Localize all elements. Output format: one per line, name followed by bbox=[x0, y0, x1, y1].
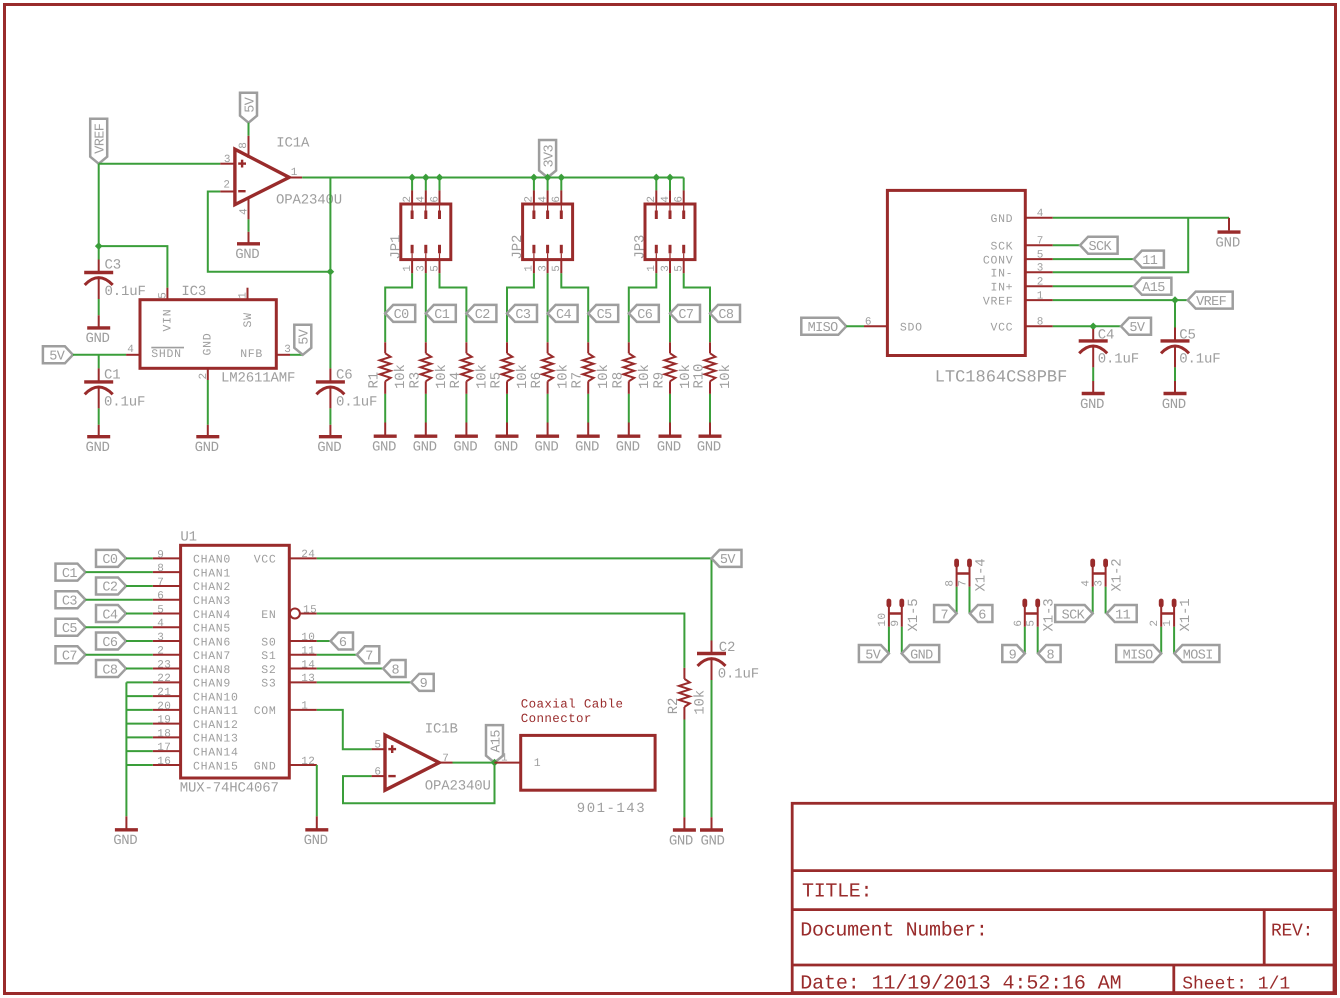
junction 3V3 bus at JP1 pin 2 bbox=[408, 174, 416, 182]
wire bus to CHAN15 bbox=[126, 764, 152, 766]
junction VREF-C5 bbox=[1171, 296, 1179, 304]
header pin X1-4 (7) pad bbox=[967, 561, 972, 565]
JP3 pin 6 stub bbox=[683, 190, 685, 219]
op-amp IC1B minus sign bbox=[388, 775, 395, 777]
svg-text:14: 14 bbox=[301, 659, 315, 671]
svg-text:5: 5 bbox=[551, 265, 563, 272]
svg-text:C6: C6 bbox=[637, 308, 653, 323]
svg-text:12: 12 bbox=[301, 756, 315, 768]
header pin X1-3 (5) pad bbox=[1035, 601, 1040, 605]
svg-text:3: 3 bbox=[537, 265, 549, 272]
svg-text:10k: 10k bbox=[692, 690, 708, 715]
pin name CHAN13 bbox=[193, 733, 239, 746]
capacitor C3 bbox=[84, 273, 113, 300]
svg-text:3: 3 bbox=[660, 265, 672, 272]
wire R5 to GND bbox=[506, 394, 508, 423]
resistor R3 bbox=[420, 342, 431, 394]
svg-text:3: 3 bbox=[1037, 263, 1044, 275]
JP3 pin 4 stub bbox=[669, 190, 671, 219]
wire GND corner down bbox=[1228, 218, 1230, 231]
svg-text:Coaxial Cable: Coaxial Cable bbox=[521, 697, 624, 711]
junction 3V3 bus at JP2 pin 6 bbox=[557, 174, 565, 182]
svg-text:S1: S1 bbox=[261, 650, 276, 663]
wire IC3 pin 3 to 5V bbox=[290, 354, 303, 356]
pin name GND (U1) bbox=[254, 760, 277, 773]
pin name CHAN14 bbox=[193, 746, 239, 759]
svg-text:C8: C8 bbox=[102, 663, 118, 678]
header X1-1 bar bbox=[1161, 612, 1174, 615]
svg-text:8: 8 bbox=[945, 579, 957, 586]
wire R6 to GND bbox=[547, 394, 549, 423]
svg-text:R6: R6 bbox=[529, 372, 545, 389]
svg-text:R8: R8 bbox=[610, 372, 626, 389]
svg-text:1: 1 bbox=[501, 753, 508, 765]
wire S3 to tag 9 bbox=[317, 681, 411, 683]
svg-text:CHAN3: CHAN3 bbox=[193, 595, 231, 608]
wire X1-3 pin 6 bbox=[1024, 627, 1026, 654]
pin number 10 (X1-5) bbox=[877, 612, 889, 626]
svg-text:IN-: IN- bbox=[990, 268, 1013, 281]
U1 pin 14 (S2) stub bbox=[289, 668, 317, 670]
svg-text:2: 2 bbox=[223, 179, 230, 191]
ground under IC1A bbox=[235, 232, 260, 263]
resistor R2 bbox=[679, 668, 690, 720]
wire bus to JP1 pin 6 bbox=[439, 178, 441, 191]
svg-text:R1: R1 bbox=[367, 372, 383, 389]
svg-text:GND: GND bbox=[1080, 397, 1104, 413]
header X1-3 bar bbox=[1025, 612, 1038, 615]
svg-text:8: 8 bbox=[157, 563, 164, 575]
jumper JP3 body bbox=[645, 204, 695, 260]
ground under R1 bbox=[372, 423, 397, 456]
pin name S1 (U1) bbox=[261, 650, 276, 663]
net label VREF (LTC1864) bbox=[1188, 292, 1233, 310]
pin name CHAN12 bbox=[193, 719, 239, 732]
pin name SDO (LTC1864) bbox=[900, 322, 923, 335]
resistor R4 bbox=[461, 342, 472, 394]
label X1-2 bbox=[1110, 558, 1126, 591]
svg-text:1: 1 bbox=[534, 757, 542, 770]
svg-text:7: 7 bbox=[940, 608, 948, 623]
value 10k (R8) bbox=[637, 364, 653, 389]
wire bus to CHAN10 bbox=[126, 695, 152, 697]
svg-text:C0: C0 bbox=[102, 553, 118, 568]
capacitor C4 bbox=[1079, 341, 1108, 368]
U1 pin 4 (CHAN5) stub bbox=[153, 626, 181, 628]
svg-text:CHAN7: CHAN7 bbox=[193, 650, 231, 663]
U1 pin 9 (CHAN0) stub bbox=[153, 557, 181, 559]
pin number 9 (U1) bbox=[157, 549, 164, 561]
wire IN+ pin bbox=[1053, 285, 1134, 287]
JP2 pin 1 stub bbox=[532, 245, 535, 273]
svg-text:C3: C3 bbox=[105, 258, 122, 274]
label X1-5 bbox=[906, 598, 922, 631]
pin name SHDN with overbar bbox=[151, 348, 184, 362]
ground top right bbox=[1215, 232, 1240, 251]
svg-text:20: 20 bbox=[157, 701, 171, 713]
pin number 5 (IC1B) bbox=[374, 740, 381, 752]
label C1 bbox=[104, 368, 121, 384]
pin number 6 (X1-3) bbox=[1013, 619, 1025, 626]
pin number 1 (JP2) bbox=[524, 265, 536, 272]
net label 11 (CONV) bbox=[1134, 251, 1164, 269]
pin name VIN bbox=[161, 309, 174, 332]
svg-text:8: 8 bbox=[1037, 317, 1044, 329]
svg-text:LM2611AMF: LM2611AMF bbox=[221, 371, 295, 387]
svg-text:C3: C3 bbox=[515, 308, 531, 323]
op-amp IC1B plus sign bbox=[388, 745, 396, 753]
wire bus to JP2 pin 4 bbox=[547, 178, 549, 191]
svg-text:REV:: REV: bbox=[1271, 922, 1313, 942]
wire EN to R2 bbox=[317, 613, 685, 667]
ground under R8 bbox=[616, 423, 641, 456]
svg-text:C7: C7 bbox=[62, 650, 78, 665]
svg-text:JP3: JP3 bbox=[633, 235, 649, 260]
pin name COM (U1) bbox=[254, 705, 277, 718]
wire S0 to tag 6 bbox=[317, 640, 331, 642]
svg-text:3: 3 bbox=[157, 632, 164, 644]
pin number 3 (JP2) bbox=[537, 265, 549, 272]
svg-text:17: 17 bbox=[157, 742, 171, 754]
pin number 6 (JP3) bbox=[674, 195, 686, 202]
header pin X1-2 (4) pad bbox=[1090, 561, 1095, 565]
svg-text:6: 6 bbox=[551, 195, 563, 202]
net label C5 bbox=[588, 305, 618, 323]
wire JP3 pin 1 to C6 bbox=[629, 273, 657, 342]
ground under R5 bbox=[494, 423, 519, 456]
pin name S2 (U1) bbox=[261, 664, 276, 677]
IC3 pin 4 stub bbox=[126, 354, 140, 356]
svg-text:CHAN1: CHAN1 bbox=[193, 567, 231, 580]
pin number 2 (U1) bbox=[157, 646, 164, 658]
pin number 23 (U1) bbox=[157, 659, 171, 671]
pin number 1 (coax) bbox=[501, 753, 508, 765]
IC3 pin 3 stub bbox=[276, 354, 290, 356]
wire C0 to CHAN0 bbox=[126, 557, 153, 559]
svg-text:3: 3 bbox=[224, 154, 231, 166]
pin name S3 (U1) bbox=[261, 678, 276, 691]
net label C2 bbox=[466, 305, 496, 323]
svg-text:4: 4 bbox=[1081, 579, 1093, 586]
value 10k (R2) bbox=[692, 690, 708, 715]
wire VREF to C5 bbox=[1174, 300, 1176, 327]
svg-text:24: 24 bbox=[301, 549, 315, 561]
capacitor C3 lead bbox=[98, 260, 100, 273]
svg-text:6: 6 bbox=[1013, 619, 1025, 626]
svg-text:9: 9 bbox=[157, 549, 164, 561]
header pin X1-4 (8) lead bbox=[956, 565, 958, 587]
svg-text:GND: GND bbox=[235, 247, 259, 263]
value LM2611AMF bbox=[221, 371, 295, 387]
coaxial connector body bbox=[521, 735, 655, 790]
pin number 6 (LTC1864) bbox=[865, 317, 872, 329]
wire 5V to pin 8 bbox=[248, 123, 250, 136]
value 10k (R5) bbox=[515, 364, 531, 389]
svg-text:4: 4 bbox=[127, 344, 134, 356]
wire X1-5 pin 9 bbox=[901, 627, 903, 654]
wire VREF vertical bbox=[98, 164, 100, 246]
value LTC1864CS8PBF bbox=[935, 368, 1068, 387]
net label GND (X1-5) bbox=[902, 645, 940, 663]
svg-text:6: 6 bbox=[157, 591, 164, 603]
header pin X1-2 (3) pad bbox=[1103, 561, 1108, 565]
net label C6 (U1) bbox=[96, 633, 126, 651]
capacitor C6 bbox=[316, 382, 345, 409]
svg-text:CHAN0: CHAN0 bbox=[193, 554, 231, 567]
JP1 pin 3 stub bbox=[424, 245, 427, 273]
U1 pin 13 (S3) stub bbox=[289, 681, 317, 683]
U1 pin 11 (S1) stub bbox=[289, 654, 317, 656]
svg-text:CHAN11: CHAN11 bbox=[193, 705, 239, 718]
junction 3V3 bus at JP2 pin 2 bbox=[530, 174, 538, 182]
wire JP1 pin 5 to C2 bbox=[440, 273, 467, 342]
wire IC1A pin 2 feedback bbox=[208, 192, 331, 272]
svg-text:4: 4 bbox=[537, 195, 549, 202]
wire VREF to IC3 pin 5 bbox=[99, 246, 168, 288]
resistor R6 bbox=[542, 342, 553, 394]
ground under C4 bbox=[1080, 367, 1105, 412]
pin number 5 (X1-3) bbox=[1026, 619, 1038, 626]
svg-text:7: 7 bbox=[157, 577, 164, 589]
wire C8 to CHAN8 bbox=[126, 668, 153, 670]
label C2 bbox=[719, 640, 736, 656]
svg-text:OPA2340U: OPA2340U bbox=[276, 192, 342, 208]
net label C3 (U1) bbox=[56, 591, 86, 609]
svg-text:C1: C1 bbox=[104, 368, 121, 384]
label IC1A bbox=[276, 135, 310, 151]
label U1 bbox=[180, 530, 197, 546]
label C4 bbox=[1098, 327, 1115, 343]
resistor R10 bbox=[705, 342, 716, 394]
pin number 4 (IC3) bbox=[127, 344, 134, 356]
U1 pin 24 (VCC) stub bbox=[289, 557, 317, 559]
wire bus to CHAN11 bbox=[126, 709, 152, 711]
label X1-4 bbox=[974, 558, 990, 591]
pin number 6 (U1) bbox=[157, 591, 164, 603]
op-amp IC1B pin 5 stub bbox=[372, 748, 385, 750]
JP3 pin 2 stub bbox=[655, 190, 657, 219]
svg-text:7: 7 bbox=[442, 753, 449, 765]
svg-text:0.1uF: 0.1uF bbox=[718, 666, 759, 682]
label X1-1 bbox=[1178, 598, 1194, 631]
pin name VREF (LTC1864) bbox=[983, 295, 1013, 308]
pin number 5 (JP3) bbox=[674, 265, 686, 272]
header pin X1-1 (2) lead bbox=[1160, 605, 1162, 627]
pin number 4 (JP2) bbox=[537, 195, 549, 202]
svg-text:5: 5 bbox=[157, 292, 169, 299]
U1 pin 2 (CHAN7) stub bbox=[153, 654, 181, 656]
net label C6 bbox=[629, 305, 659, 323]
net label C7 (U1) bbox=[56, 646, 86, 664]
pin number 6 (JP1) bbox=[429, 195, 441, 202]
value 10k (R7) bbox=[596, 364, 612, 389]
LTC1864 pin 7 (SCK) stub bbox=[1025, 244, 1053, 246]
label C5 bbox=[1179, 327, 1196, 343]
LTC1864 pin 4 (GND) stub bbox=[1025, 217, 1053, 219]
svg-text:GND: GND bbox=[1162, 397, 1186, 413]
capacitor C2 bbox=[697, 654, 726, 681]
JP2 pin 4 stub bbox=[547, 190, 549, 219]
svg-text:GND: GND bbox=[254, 760, 277, 773]
svg-text:1: 1 bbox=[402, 265, 414, 272]
value 0.1uF (C5) bbox=[1179, 351, 1220, 367]
resistor R8 bbox=[623, 342, 634, 394]
svg-text:3: 3 bbox=[1094, 579, 1106, 586]
svg-text:VCC: VCC bbox=[254, 554, 277, 567]
svg-text:CHAN15: CHAN15 bbox=[193, 760, 239, 773]
svg-text:Sheet: 1/1: Sheet: 1/1 bbox=[1182, 974, 1290, 994]
pin number 2 (IC3) bbox=[198, 372, 210, 379]
ground under IC3 bbox=[195, 425, 220, 456]
wire X1-2 pin 4 bbox=[1092, 587, 1094, 614]
pin number 8 (LTC1864) bbox=[1037, 317, 1044, 329]
svg-text:VREF: VREF bbox=[94, 123, 109, 154]
svg-text:0.1uF: 0.1uF bbox=[1098, 351, 1139, 367]
svg-text:0.1uF: 0.1uF bbox=[1179, 351, 1220, 367]
pin number 5 (U1) bbox=[157, 604, 164, 616]
junction output node A15 bbox=[491, 759, 499, 767]
svg-text:5V: 5V bbox=[49, 350, 66, 365]
svg-text:LTC1864CS8PBF: LTC1864CS8PBF bbox=[935, 368, 1068, 387]
wire C2 to CHAN2 bbox=[126, 585, 153, 587]
title block Sheet bbox=[1182, 974, 1290, 994]
svg-text:5: 5 bbox=[1037, 250, 1044, 262]
op-amp IC1A pin 3 stub bbox=[220, 163, 234, 165]
pin name VCC (LTC1864) bbox=[990, 322, 1013, 335]
wire 3V3 bus bbox=[302, 177, 684, 179]
svg-text:7: 7 bbox=[1037, 236, 1044, 248]
svg-text:C5: C5 bbox=[62, 622, 78, 637]
svg-text:6: 6 bbox=[429, 195, 441, 202]
svg-text:R9: R9 bbox=[652, 372, 668, 389]
svg-text:1: 1 bbox=[291, 167, 298, 179]
wire VCC pin bbox=[1053, 325, 1121, 327]
svg-text:CHAN4: CHAN4 bbox=[193, 609, 231, 622]
IC U1 body bbox=[181, 545, 290, 778]
wire VREF pin bbox=[1053, 299, 1188, 301]
pin number 15 (U1) bbox=[303, 604, 317, 616]
header pin X1-5 (10) lead bbox=[888, 605, 890, 627]
value 10k (R4) bbox=[474, 364, 490, 389]
svg-text:1: 1 bbox=[301, 701, 308, 713]
svg-text:Document Number:: Document Number: bbox=[800, 920, 987, 943]
svg-text:VREF: VREF bbox=[1196, 295, 1227, 310]
U1 pin 6 (CHAN3) stub bbox=[153, 599, 181, 601]
header pin X1-3 (6) lead bbox=[1024, 605, 1026, 627]
svg-text:R5: R5 bbox=[489, 372, 505, 389]
pin number 3 (LTC1864) bbox=[1037, 263, 1044, 275]
net label 8 (U1 S2) bbox=[383, 660, 406, 678]
wire C6 to CHAN6 bbox=[126, 640, 153, 642]
net label C1 bbox=[426, 305, 456, 323]
svg-text:5V: 5V bbox=[720, 553, 737, 568]
svg-text:22: 22 bbox=[157, 673, 171, 685]
header pin X1-1 (2) pad bbox=[1159, 601, 1164, 605]
svg-text:GND: GND bbox=[85, 331, 109, 347]
wire pin 4 to GND bbox=[248, 219, 250, 231]
label R9 bbox=[652, 372, 668, 389]
pin number 24 (U1) bbox=[301, 549, 315, 561]
ground under C3 bbox=[85, 299, 110, 347]
net label C0 bbox=[385, 305, 415, 323]
pin number 6 (JP2) bbox=[551, 195, 563, 202]
svg-text:GND: GND bbox=[1215, 235, 1240, 251]
junction 3V3 bus at JP1 pin 6 bbox=[436, 174, 444, 182]
LTC1864 pin 6 (SDO) stub bbox=[864, 325, 887, 327]
U1 pin 21 (CHAN10) stub bbox=[153, 695, 181, 697]
op-amp IC1B pin 6 stub bbox=[372, 775, 385, 777]
wire bus to CHAN12 bbox=[126, 723, 152, 725]
label R8 bbox=[610, 372, 626, 389]
pin number 14 (U1) bbox=[301, 659, 315, 671]
svg-text:SCK: SCK bbox=[1089, 240, 1113, 255]
IC3 pin 5 stub bbox=[166, 288, 168, 300]
svg-text:C4: C4 bbox=[1098, 327, 1115, 343]
pin number 1 (JP3) bbox=[646, 265, 658, 272]
value 10k (R1) bbox=[393, 364, 409, 389]
svg-text:GND: GND bbox=[657, 440, 681, 456]
wire S1 to tag 7 bbox=[317, 654, 357, 656]
ground under R6 bbox=[534, 423, 559, 456]
wire 5V junction to C1 bbox=[98, 355, 100, 369]
label JP1 bbox=[388, 235, 404, 260]
U1 pin 10 (S0) stub bbox=[289, 640, 317, 642]
svg-text:MOSI: MOSI bbox=[1183, 648, 1213, 663]
svg-text:2: 2 bbox=[1037, 277, 1044, 289]
svg-text:IN+: IN+ bbox=[990, 282, 1013, 295]
U1 pin 15 (EN) bubble bbox=[290, 608, 300, 618]
pin name CHAN4 bbox=[193, 609, 231, 622]
ground under C6 bbox=[317, 408, 342, 456]
svg-text:R2: R2 bbox=[666, 698, 682, 715]
U1 pin 7 (CHAN2) stub bbox=[153, 585, 181, 587]
net label MISO (X1-1) bbox=[1116, 645, 1161, 663]
net label 7 (X1-4) bbox=[934, 605, 957, 623]
svg-text:1: 1 bbox=[524, 265, 536, 272]
JP2 pin 3 stub bbox=[546, 245, 549, 273]
wire VCC to C4 bbox=[1092, 326, 1094, 329]
svg-text:C2: C2 bbox=[475, 308, 491, 323]
svg-text:CHAN9: CHAN9 bbox=[193, 678, 231, 691]
svg-text:3V3: 3V3 bbox=[542, 144, 557, 167]
op-amp IC1A output stub pin 1 bbox=[289, 177, 303, 179]
net label 11 (X1-2) bbox=[1107, 605, 1137, 623]
svg-text:X1-5: X1-5 bbox=[906, 598, 922, 631]
svg-text:9: 9 bbox=[1009, 648, 1017, 663]
supply 5V (NFB) bbox=[294, 325, 312, 355]
svg-text:R3: R3 bbox=[407, 372, 423, 389]
pin name CHAN2 bbox=[193, 581, 231, 594]
svg-text:10: 10 bbox=[301, 632, 315, 644]
pin number 18 (U1) bbox=[157, 728, 171, 740]
svg-text:CHAN14: CHAN14 bbox=[193, 746, 239, 759]
svg-text:CHAN10: CHAN10 bbox=[193, 691, 239, 704]
svg-text:C8: C8 bbox=[718, 308, 734, 323]
svg-text:X1-4: X1-4 bbox=[974, 558, 990, 591]
svg-text:GND: GND bbox=[990, 213, 1013, 226]
capacitor C5 lead bbox=[1174, 328, 1176, 341]
wire bus to JP3 pin 6 bbox=[683, 178, 685, 191]
svg-text:A15: A15 bbox=[1142, 281, 1165, 296]
LTC1864 pin 2 (IN+) stub bbox=[1025, 285, 1053, 287]
pin name CHAN3 bbox=[193, 595, 231, 608]
label JP2 bbox=[510, 235, 526, 260]
header pin X1-2 (3) lead bbox=[1105, 565, 1107, 587]
pin number 9 (X1-5) bbox=[890, 619, 902, 626]
IC3 pin 1 stub bbox=[247, 288, 249, 300]
label R3 bbox=[407, 372, 423, 389]
pin number 2 (JP3) bbox=[646, 195, 658, 202]
